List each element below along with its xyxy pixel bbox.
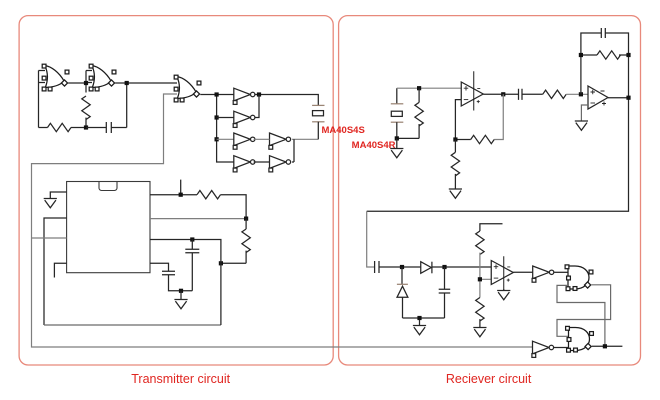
node bus2 dot bbox=[215, 115, 219, 119]
resistor R6 feedback bbox=[471, 135, 495, 143]
wire R4 ends bbox=[221, 219, 246, 264]
wire pin2 loop bottom (gray) bbox=[44, 324, 221, 326]
wire R2 to node A bbox=[85, 118, 87, 128]
inverter U2F row4b bbox=[269, 156, 291, 172]
node bus1 dot bbox=[215, 92, 219, 96]
capacitor C4 series bbox=[519, 89, 543, 100]
node U4 out dot bbox=[501, 92, 505, 96]
capacitor C5 feedback bbox=[601, 28, 605, 38]
wire row2 input bbox=[217, 117, 234, 119]
resistor R2 vertical bbox=[82, 96, 90, 120]
wire row1 output to transducer bbox=[255, 95, 318, 106]
wire detector drop (gray) bbox=[367, 211, 375, 267]
receiver panel border bbox=[339, 16, 641, 365]
ground G6 bbox=[413, 326, 426, 335]
wire feedback from IC to U1C (gray) bbox=[32, 94, 533, 347]
capacitor C1 bbox=[86, 122, 127, 133]
wire U1A out to node B bbox=[68, 71, 92, 93]
wire U6 ground stem bbox=[503, 289, 505, 291]
wire R10 stub bbox=[480, 224, 503, 231]
wire U7A out to gate bbox=[554, 271, 568, 273]
capacitor C7 shunt bbox=[439, 267, 451, 318]
ground G1 bbox=[44, 199, 57, 208]
resistor R9 feedback bbox=[597, 51, 621, 59]
resistor R10 pullup bbox=[476, 231, 484, 255]
inverter U2A row1 bbox=[233, 88, 255, 104]
node A dot bbox=[84, 125, 88, 129]
wire transducer to opamp1 (gray) bbox=[397, 87, 461, 89]
wire IC pin3 (gray) from feedback bus bbox=[32, 237, 67, 239]
wire detector ground bus bbox=[403, 318, 445, 326]
transmitter panel border bbox=[19, 16, 333, 365]
node R4 bottom dot bbox=[219, 261, 223, 265]
node fb left dot bbox=[579, 53, 583, 57]
wire U5 output long return bbox=[367, 98, 629, 212]
diode D1 shunt bbox=[397, 267, 408, 318]
wire U4 output bbox=[483, 93, 518, 95]
node gnd2 dot bbox=[179, 289, 183, 293]
wire IC pin5 stub bbox=[54, 263, 66, 277]
svg-text:Transmitter circuit: Transmitter circuit bbox=[131, 372, 230, 386]
wire U8B output bbox=[592, 345, 623, 347]
node pinC dot bbox=[190, 237, 194, 241]
inverter U2E row4a bbox=[233, 156, 255, 172]
node xdcr bottom dot bbox=[395, 136, 399, 140]
ground G8 bbox=[497, 291, 510, 300]
wire R11 to ground bbox=[479, 319, 481, 327]
node det gnd dot bbox=[417, 316, 421, 320]
inverter U2C row3a bbox=[233, 133, 255, 149]
node det1 dot bbox=[400, 265, 404, 269]
node det2 dot bbox=[442, 265, 446, 269]
node fb dot bbox=[453, 137, 457, 141]
wire R7 ends bbox=[454, 140, 456, 190]
wire IC pin1 to ground bbox=[50, 192, 66, 199]
gate U8A latch top bbox=[565, 265, 593, 291]
node row1 dot bbox=[257, 92, 261, 96]
wire U4 feedback right (gray) bbox=[494, 94, 503, 139]
wire U7B out bbox=[554, 347, 569, 349]
node U8B out dot bbox=[603, 344, 607, 348]
node U5 out dot bbox=[626, 96, 630, 100]
resistor R1 feedback bbox=[48, 123, 72, 131]
wire U6 power pins bbox=[503, 256, 505, 289]
node fb right dot bbox=[626, 53, 630, 57]
wire U8B out feedback (gray) bbox=[557, 285, 605, 346]
op-amp U4 bbox=[461, 82, 483, 106]
op-amp U6 comparator bbox=[491, 261, 513, 285]
wire IC pinC bbox=[150, 240, 221, 326]
ground G7 bbox=[473, 328, 486, 337]
wire IC pinA to R3 bbox=[150, 180, 197, 195]
node bus3 dot bbox=[215, 137, 219, 141]
svg-text:Reciever circuit: Reciever circuit bbox=[446, 372, 532, 386]
wire R1 to node A bbox=[71, 127, 86, 129]
resistor R7 to ground bbox=[451, 152, 459, 176]
capacitor C3 bbox=[162, 271, 192, 291]
wire IC pinB (gray) bbox=[150, 218, 246, 220]
wire U1B out / C1 riser bbox=[115, 83, 177, 128]
resistor R11 pulldown bbox=[476, 298, 484, 322]
node B dot bbox=[84, 81, 88, 85]
node opamp2 in dot bbox=[579, 92, 583, 96]
node xdcr top dot bbox=[417, 86, 421, 90]
resistor R8 series bbox=[543, 90, 567, 98]
capacitor C2 bbox=[185, 240, 199, 291]
wire IC pin2 loop bbox=[44, 218, 67, 325]
capacitor C6 series bbox=[375, 261, 421, 273]
wire U8A out cross-couple (gray) bbox=[557, 285, 611, 337]
IC U3 timer bbox=[67, 182, 150, 273]
resistor R4 vertical bbox=[242, 229, 250, 253]
wire U5 minus input to ground bbox=[581, 105, 588, 121]
wire U5 feedback loop bbox=[581, 33, 629, 98]
gate U8B latch bottom bbox=[566, 326, 594, 352]
op-amp U5 bbox=[588, 86, 608, 109]
inverter U2B row2 bbox=[233, 111, 255, 127]
wire to ground G2 bbox=[180, 291, 182, 300]
wire IC pinD to C3 bbox=[150, 263, 169, 271]
wire to ground G3 bbox=[396, 138, 398, 148]
wire R8 to opamp2 (gray) bbox=[566, 93, 588, 95]
transducer MA40S4S bbox=[312, 105, 324, 139]
wire U4 power pins bbox=[473, 71, 475, 110]
node pinA dot bbox=[179, 193, 183, 197]
diode D2 series bbox=[421, 262, 492, 274]
inverter U2D row3b bbox=[269, 133, 291, 149]
wire oscillator input bus bbox=[39, 71, 48, 128]
transducer MA40S4R bbox=[391, 88, 404, 138]
gate U1B bbox=[89, 64, 116, 91]
wire R3 to R4 bbox=[221, 195, 247, 219]
ground G5 bbox=[575, 121, 588, 130]
wire row4 chain bbox=[254, 139, 294, 162]
inverter U7B bbox=[532, 341, 554, 357]
node C dot bbox=[125, 81, 129, 85]
inverter U7A bbox=[532, 266, 554, 282]
wire U1C output to bus bbox=[200, 95, 234, 163]
ground G4 bbox=[449, 189, 462, 198]
gate U1A bbox=[42, 64, 69, 91]
svg-text:MA40S4S: MA40S4S bbox=[322, 125, 365, 136]
wire row3 input (gray) bbox=[217, 138, 234, 140]
wire R6 to inverting input bbox=[455, 100, 470, 140]
node divider dot bbox=[478, 277, 482, 281]
wire row2 output riser bbox=[255, 95, 259, 118]
wire divider (gray) bbox=[480, 253, 491, 298]
wire row3 chain (gray) bbox=[254, 138, 319, 140]
node pinB dot bbox=[244, 217, 248, 221]
resistor R3 bbox=[197, 191, 221, 199]
svg-text:MA40S4R: MA40S4R bbox=[352, 140, 396, 151]
ground G3 bbox=[390, 149, 403, 158]
ground G2 bbox=[174, 300, 187, 309]
wire U6 output bbox=[513, 271, 532, 273]
resistor R5 parallel bbox=[415, 102, 423, 126]
gate U1C bbox=[174, 75, 201, 102]
wire R5 ends bbox=[397, 88, 419, 138]
